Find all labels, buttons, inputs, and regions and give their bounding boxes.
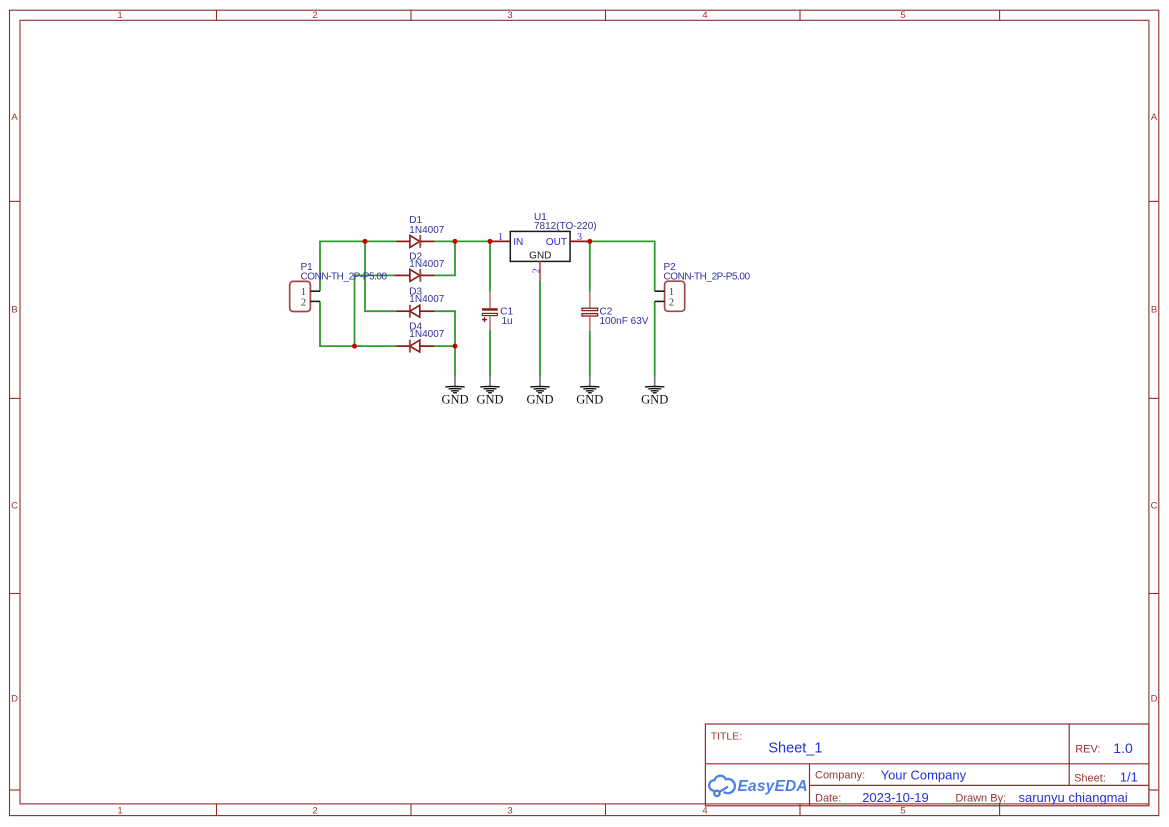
ground GND symbol 1 (441, 376, 468, 406)
wire: P1 pin1 up to AC1 top rail (320, 241, 397, 291)
node V+ / D2 cathode junction (453, 239, 458, 244)
svg-text:C: C (11, 501, 18, 512)
svg-text:Company:: Company: (815, 770, 865, 782)
svg-text:1N4007: 1N4007 (409, 225, 444, 236)
svg-text:1u: 1u (502, 316, 513, 327)
svg-text:OUT: OUT (546, 237, 567, 248)
svg-text:A: A (1151, 112, 1158, 123)
diode D4 1N4007 (397, 321, 445, 352)
svg-text:4: 4 (702, 10, 707, 21)
wire: node AC1 branch to D3 cathode (365, 241, 397, 311)
svg-text:2: 2 (669, 297, 674, 308)
svg-text:5: 5 (900, 806, 905, 817)
svg-text:GND: GND (526, 393, 553, 407)
svg-text:TITLE:: TITLE: (711, 731, 743, 743)
svg-text:A: A (11, 112, 18, 123)
svg-text:3: 3 (507, 806, 512, 817)
node V+ / C1 junction (488, 239, 493, 244)
svg-text:3: 3 (577, 232, 582, 243)
wire: D3 anode down to GND node (434, 311, 455, 346)
ground GND symbol 2 (476, 376, 503, 406)
svg-text:1N4007: 1N4007 (409, 259, 444, 270)
svg-text:1N4007: 1N4007 (409, 329, 444, 340)
svg-text:Your Company: Your Company (881, 768, 967, 783)
svg-text:1: 1 (117, 10, 122, 21)
capacitor C1 1u (polarized) (482, 292, 514, 331)
wire: V+ rail branch down to D2 cathode (434, 241, 455, 275)
svg-text:EasyEDA: EasyEDA (738, 778, 808, 795)
wire: C2 top to OUT rail (589, 241, 591, 291)
EasyEDA logo (709, 776, 808, 796)
svg-text:3: 3 (507, 10, 512, 21)
svg-text:1: 1 (117, 806, 122, 817)
connector P2 CONN-TH_2P-P5.00 (655, 262, 751, 312)
svg-text:GND: GND (441, 393, 468, 407)
svg-text:1.0: 1.0 (1113, 740, 1133, 756)
svg-text:1N4007: 1N4007 (409, 294, 444, 305)
svg-text:100nF 63V: 100nF 63V (600, 316, 649, 327)
wire: P2 pin2 down to GND (654, 301, 656, 376)
svg-text:2: 2 (312, 10, 317, 21)
svg-text:2: 2 (531, 268, 542, 273)
node GND / D3-D4 anode junction (453, 344, 458, 349)
svg-text:D: D (1151, 694, 1158, 705)
svg-text:2023-10-19: 2023-10-19 (862, 790, 929, 805)
svg-text:REV:: REV: (1075, 744, 1100, 756)
svg-text:D: D (11, 694, 18, 705)
svg-text:7812(TO-220): 7812(TO-220) (534, 221, 597, 232)
wire: U1 pin2 to GND (539, 281, 541, 377)
capacitor C2 100nF 63V (582, 292, 649, 331)
diode D3 1N4007 (397, 286, 445, 317)
svg-text:GND: GND (476, 393, 503, 407)
svg-text:C: C (1151, 501, 1158, 512)
op-amp U1 7812(TO-220) regulator (490, 212, 597, 281)
svg-text:Sheet:: Sheet: (1074, 773, 1106, 785)
junction node dots (352, 239, 592, 349)
svg-text:B: B (1151, 305, 1157, 316)
ground GND symbol 5 (641, 376, 668, 406)
ground GND symbol 3 (526, 376, 553, 406)
node VOUT / C2 junction (587, 239, 592, 244)
title block (705, 724, 1149, 806)
svg-text:2: 2 (312, 806, 317, 817)
diode D2 1N4007 (395, 252, 445, 282)
wire: C2 bottom to GND (589, 331, 591, 377)
svg-text:sarunyu chiangmai: sarunyu chiangmai (1019, 790, 1128, 805)
svg-text:5: 5 (900, 10, 905, 21)
wire: U1 OUT rail to P2 pin1 (590, 241, 655, 291)
svg-text:1/1: 1/1 (1120, 770, 1138, 785)
svg-text:GND: GND (529, 251, 551, 262)
svg-text:1: 1 (498, 232, 503, 243)
wire: D1 cathode to U1 IN (V+ rail) (434, 240, 490, 242)
wire: D2 anode to AC2 bottom rail (355, 275, 395, 346)
node AC2 / D2 anode junction (352, 344, 357, 349)
wire: C1 bottom to GND (489, 330, 491, 377)
svg-text:Date:: Date: (815, 792, 841, 804)
svg-text:B: B (11, 305, 17, 316)
svg-text:IN: IN (513, 237, 523, 248)
svg-text:4: 4 (702, 806, 707, 817)
svg-text:Sheet_1: Sheet_1 (768, 741, 822, 757)
node AC1/D3 junction (363, 239, 368, 244)
svg-text:GND: GND (641, 393, 668, 407)
svg-text:CONN-TH_2P-P5.00: CONN-TH_2P-P5.00 (664, 271, 751, 282)
wire: D4 anode to GND stub (434, 346, 455, 376)
svg-text:GND: GND (576, 393, 603, 407)
svg-text:CONN-TH_2P-P5.00: CONN-TH_2P-P5.00 (301, 271, 388, 282)
diode D1 1N4007 (397, 215, 445, 248)
svg-text:2: 2 (301, 297, 306, 308)
wire: P1 pin2 down to AC2 bottom rail (320, 301, 397, 346)
ground GND symbol 4 (576, 376, 603, 406)
wire: C1 top to V+ rail (489, 241, 491, 291)
connector P1 CONN-TH_2P-P5.00 (290, 262, 388, 312)
svg-text:Drawn By:: Drawn By: (955, 793, 1006, 805)
